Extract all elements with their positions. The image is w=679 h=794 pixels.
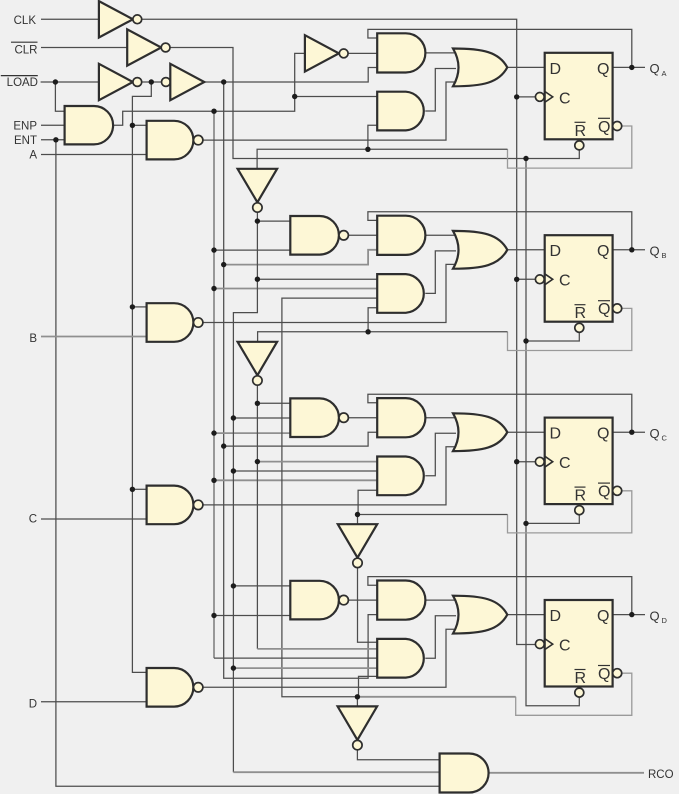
svg-text:Q: Q bbox=[598, 301, 610, 318]
svg-text:Q: Q bbox=[598, 484, 610, 501]
svg-text:D: D bbox=[662, 616, 668, 625]
svg-text:R: R bbox=[575, 123, 587, 140]
svg-text:Q: Q bbox=[598, 119, 610, 136]
svg-text:Q: Q bbox=[597, 61, 609, 78]
svg-text:D: D bbox=[29, 699, 37, 711]
svg-text:D: D bbox=[550, 608, 562, 625]
svg-text:Q: Q bbox=[650, 426, 660, 441]
svg-text:Q: Q bbox=[650, 61, 660, 76]
svg-text:Q: Q bbox=[597, 426, 609, 443]
svg-text:CLK: CLK bbox=[14, 15, 37, 27]
svg-text:D: D bbox=[550, 61, 562, 78]
svg-text:ENP: ENP bbox=[13, 120, 37, 132]
svg-text:LOAD: LOAD bbox=[7, 77, 38, 89]
svg-text:A: A bbox=[29, 150, 37, 162]
svg-text:Q: Q bbox=[597, 243, 609, 260]
svg-text:C: C bbox=[559, 455, 571, 472]
svg-text:Q: Q bbox=[598, 666, 610, 683]
svg-text:C: C bbox=[29, 514, 37, 526]
svg-text:C: C bbox=[662, 434, 668, 443]
svg-text:B: B bbox=[29, 333, 37, 345]
svg-text:C: C bbox=[559, 90, 571, 107]
svg-text:Q: Q bbox=[650, 608, 660, 623]
svg-text:C: C bbox=[559, 273, 571, 290]
svg-text:ENT: ENT bbox=[14, 135, 37, 147]
svg-text:R: R bbox=[575, 670, 587, 687]
svg-text:RCO: RCO bbox=[648, 769, 674, 781]
svg-text:C: C bbox=[559, 638, 571, 655]
svg-text:B: B bbox=[662, 251, 667, 260]
svg-text:Q: Q bbox=[597, 608, 609, 625]
svg-text:A: A bbox=[662, 69, 667, 78]
svg-text:CLR: CLR bbox=[14, 44, 37, 56]
svg-text:R: R bbox=[575, 488, 587, 505]
svg-text:D: D bbox=[550, 243, 562, 260]
svg-text:R: R bbox=[575, 305, 587, 322]
svg-text:D: D bbox=[550, 426, 562, 443]
svg-text:Q: Q bbox=[650, 244, 660, 259]
